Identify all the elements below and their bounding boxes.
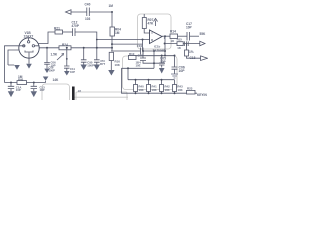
svg-text:10P: 10P (70, 70, 75, 74)
svg-text:1.5K: 1.5K (51, 52, 58, 56)
svg-text:55K: 55K (200, 32, 207, 36)
svg-text:10K: 10K (115, 63, 121, 67)
svg-text:R15: R15 (177, 38, 183, 42)
svg-text:10P: 10P (16, 88, 21, 92)
svg-text:1M: 1M (115, 31, 120, 35)
svg-text:10K: 10K (165, 88, 170, 92)
svg-text:10P: 10P (179, 69, 186, 73)
svg-text:100P: 100P (49, 68, 55, 72)
svg-text:1M: 1M (109, 4, 114, 8)
svg-text:100P: 100P (87, 64, 94, 68)
svg-text:470P: 470P (72, 24, 80, 28)
svg-text:R24: R24 (62, 43, 68, 47)
svg-text:R10: R10 (129, 52, 135, 56)
svg-text:1%: 1% (189, 50, 194, 54)
svg-text:KEYIN: KEYIN (197, 93, 207, 97)
svg-text:TA7505P: TA7505P (153, 49, 165, 53)
svg-text:C04: C04 (137, 44, 143, 48)
svg-text:C18: C18 (190, 56, 196, 60)
svg-text:10P: 10P (51, 63, 56, 67)
svg-text:C15: C15 (138, 54, 144, 58)
svg-text:10E: 10E (136, 64, 141, 68)
svg-text:103: 103 (85, 17, 91, 21)
svg-text:R77: R77 (100, 62, 106, 66)
svg-text:14K: 14K (53, 78, 60, 82)
svg-text:R23: R23 (187, 86, 193, 90)
svg-text:47K: 47K (148, 21, 155, 25)
svg-text:R14: R14 (170, 29, 176, 33)
svg-text:10P: 10P (40, 88, 45, 92)
svg-text:10K: 10K (178, 88, 183, 92)
svg-text:10K: 10K (139, 88, 144, 92)
svg-text:R40: R40 (18, 77, 24, 81)
svg-text:R21: R21 (54, 26, 60, 30)
svg-text:10P: 10P (160, 60, 167, 64)
svg-text:J2: J2 (78, 89, 82, 93)
svg-text:C40: C40 (85, 3, 91, 7)
svg-text:12AX7: 12AX7 (24, 34, 34, 38)
svg-text:10P: 10P (186, 25, 193, 29)
svg-text:10K: 10K (152, 88, 157, 92)
